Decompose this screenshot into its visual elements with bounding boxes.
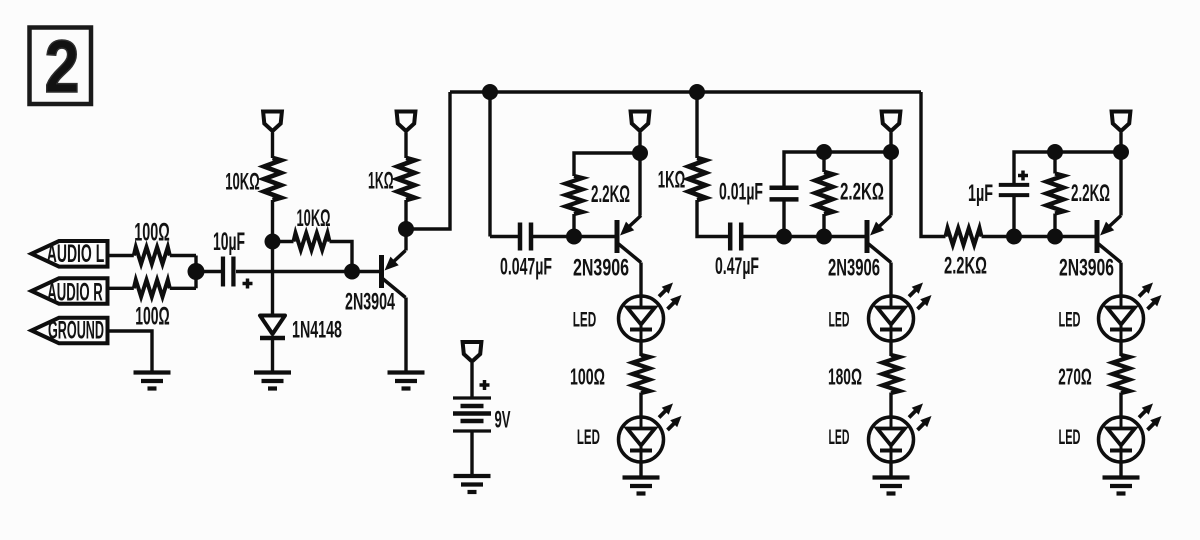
svg-text:LED: LED xyxy=(829,426,850,449)
svg-text:1KΩ: 1KΩ xyxy=(658,167,686,194)
svg-text:LED: LED xyxy=(1059,309,1081,332)
svg-text:9V: 9V xyxy=(495,407,511,434)
svg-text:GROUND: GROUND xyxy=(48,317,104,345)
svg-text:100Ω: 100Ω xyxy=(135,302,170,330)
svg-text:1KΩ: 1KΩ xyxy=(368,168,394,195)
svg-text:100Ω: 100Ω xyxy=(134,218,170,246)
svg-text:2: 2 xyxy=(45,25,80,108)
svg-text:10KΩ: 10KΩ xyxy=(297,205,331,232)
svg-text:180Ω: 180Ω xyxy=(828,364,862,390)
svg-text:2N3906: 2N3906 xyxy=(828,255,880,282)
svg-text:LED: LED xyxy=(577,426,600,449)
svg-text:0.047µF: 0.047µF xyxy=(500,254,552,281)
svg-text:LED: LED xyxy=(829,309,850,332)
svg-text:10KΩ: 10KΩ xyxy=(225,169,260,196)
svg-text:AUDIO R: AUDIO R xyxy=(47,279,103,307)
svg-text:2.2KΩ: 2.2KΩ xyxy=(840,179,884,206)
svg-text:1µF: 1µF xyxy=(968,180,993,207)
svg-text:2.2KΩ: 2.2KΩ xyxy=(1071,180,1110,207)
svg-text:2N3904: 2N3904 xyxy=(345,289,395,316)
svg-text:2N3906: 2N3906 xyxy=(1059,255,1114,282)
svg-text:0.47µF: 0.47µF xyxy=(715,253,759,280)
svg-text:LED: LED xyxy=(573,309,597,332)
svg-text:0.01µF: 0.01µF xyxy=(719,179,763,206)
svg-text:LED: LED xyxy=(1059,426,1081,449)
svg-text:2.2KΩ: 2.2KΩ xyxy=(591,181,630,208)
svg-text:1N4148: 1N4148 xyxy=(292,317,342,344)
svg-text:AUDIO L: AUDIO L xyxy=(47,240,105,268)
svg-text:270Ω: 270Ω xyxy=(1058,364,1092,390)
svg-text:10µF: 10µF xyxy=(213,228,245,256)
svg-text:2N3906: 2N3906 xyxy=(573,255,629,282)
svg-text:2.2KΩ: 2.2KΩ xyxy=(944,253,987,280)
svg-text:100Ω: 100Ω xyxy=(570,364,605,390)
